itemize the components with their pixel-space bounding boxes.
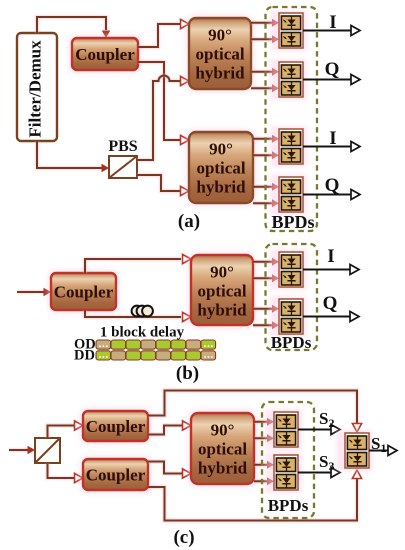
dashed BPDs enclosure (a): [266, 7, 318, 231]
wire: coupler C2 top output to hybrid U3 input1: [85, 254, 191, 273]
filter/demux box: [17, 33, 57, 141]
svg-text:BPDs: BPDs: [271, 212, 314, 232]
PBS polarizing beam splitter: [109, 156, 137, 178]
wire: hybrid U4 output 4 to BPD: [254, 477, 274, 485]
dashed BPDs enclosure (c): [262, 402, 314, 518]
coupler C1: [68, 34, 142, 74]
svg-text:I: I: [329, 128, 336, 149]
balanced photodetector pair BPD1: [270, 10, 307, 51]
svg-text:S3: S3: [319, 452, 334, 473]
wire: coupler C1 out2 to hybrid U2 input1: [138, 62, 189, 145]
OD data block sequence bar: [96, 340, 216, 349]
balanced photodetector pair BPD5: [270, 249, 307, 290]
wire: filter/demux bottom output to PBS input: [37, 141, 109, 172]
svg-text:hybrid: hybrid: [197, 301, 247, 320]
svg-text:90°: 90°: [211, 421, 235, 440]
balanced photodetector pair BPD6: [270, 296, 307, 337]
svg-text:(a): (a): [178, 211, 200, 232]
output S1 with arrow: [369, 434, 397, 456]
svg-text:90°: 90°: [209, 140, 233, 159]
wire: coupler C4 out2 long bottom path to combiner BPD: [148, 470, 362, 521]
svg-text:Coupler: Coupler: [86, 466, 146, 485]
svg-text:Filter/Demux: Filter/Demux: [26, 40, 45, 138]
coupler C2: [47, 269, 120, 314]
output Q of hybrid U1 with arrow: [303, 59, 360, 85]
combiner balanced photodetector pair BPD9: [336, 430, 373, 471]
svg-text:Q: Q: [325, 175, 340, 196]
svg-text:Q: Q: [325, 59, 340, 80]
wire: coupler C3 out1 long top path to combiner BPD: [148, 391, 362, 433]
output S3 with arrow: [298, 452, 340, 478]
svg-text:I: I: [327, 246, 334, 267]
beam splitter (c): [35, 438, 60, 463]
svg-text:Coupler: Coupler: [54, 283, 114, 302]
input wire (c): [9, 446, 35, 454]
svg-text:90°: 90°: [210, 263, 234, 282]
90 deg optical hybrid U1: [185, 14, 255, 93]
wire: filter/demux top output to coupler C1 input: [37, 17, 110, 38]
wire: PBS out2 to hybrid U2 input2: [137, 175, 189, 196]
wire: hybrid U3 output 2 to BPD: [253, 274, 279, 282]
coupler C4: [79, 455, 152, 494]
output I of hybrid U3 with arrow: [303, 246, 359, 275]
dashed BPDs enclosure (b): [266, 244, 318, 350]
svg-text:optical: optical: [196, 159, 245, 178]
input wire (b): [17, 288, 51, 296]
wire: hybrid U3 output 3 to BPD: [253, 305, 279, 313]
svg-text:S1: S1: [371, 434, 386, 455]
wire: coupler C2 bottom output through delay coil to hybrid U3 input2: [85, 310, 191, 322]
wire: hybrid U1 output 4 to BPD: [251, 84, 279, 92]
90 deg optical hybrid U2: [185, 128, 257, 207]
svg-text:hybrid: hybrid: [196, 178, 246, 197]
wire: hybrid U2 output 4 to BPD: [253, 199, 279, 207]
balanced photodetector pair BPD2: [270, 59, 307, 100]
wire: hybrid U2 output 3 to BPD: [253, 183, 279, 191]
output Q of hybrid U2 with arrow: [303, 175, 360, 200]
svg-text:Coupler: Coupler: [86, 417, 146, 436]
wire: coupler C3 out2 to hybrid U4 input1: [148, 421, 191, 435]
svg-text:Coupler: Coupler: [75, 45, 135, 64]
svg-text:BPDs: BPDs: [268, 496, 309, 515]
coupler C3: [79, 407, 152, 445]
output S2 with arrow: [298, 409, 340, 435]
output Q of hybrid U3 with arrow: [303, 293, 359, 322]
wire: hybrid U2 output 2 to BPD: [253, 151, 279, 159]
svg-text:optical: optical: [197, 282, 246, 301]
svg-text:Q: Q: [323, 293, 338, 314]
svg-text:DD: DD: [74, 348, 95, 364]
svg-text:I: I: [329, 12, 336, 33]
balanced photodetector pair BPD4: [270, 174, 307, 215]
wire: coupler C1 out1 to hybrid U1 input1: [138, 19, 189, 47]
svg-text:hybrid: hybrid: [198, 459, 248, 478]
svg-text:(b): (b): [176, 363, 199, 384]
fiber delay coil: [132, 306, 153, 317]
balanced photodetector pair BPD7: [265, 409, 302, 450]
90 deg optical hybrid U4: [187, 409, 258, 488]
wire: hybrid U1 output 3 to BPD: [251, 68, 279, 76]
wire: hybrid U1 output 2 to BPD: [251, 35, 279, 43]
wire: hybrid U1 output 1 to BPD: [251, 19, 279, 27]
wire: hybrid U3 output 4 to BPD: [253, 321, 279, 329]
wire: hybrid U3 output 1 to BPD: [253, 258, 279, 266]
wire: hybrid U4 output 3 to BPD: [254, 461, 274, 469]
wire: coupler C4 out1 to hybrid U4 input2: [148, 462, 191, 479]
svg-text:90°: 90°: [208, 26, 232, 45]
wire: splitter bottom to coupler C4 input: [48, 463, 84, 483]
svg-text:optical: optical: [195, 45, 244, 64]
wire: hybrid U2 output 1 to BPD: [253, 135, 279, 143]
90 deg optical hybrid U3: [187, 251, 257, 329]
wire: hybrid U4 output 2 to BPD: [254, 434, 274, 442]
svg-text:BPDs: BPDs: [271, 333, 312, 352]
svg-text:PBS: PBS: [108, 138, 137, 155]
balanced photodetector pair BPD3: [270, 126, 307, 167]
wire: PBS out1 to hybrid U1 input2 (hop over crossing): [137, 76, 189, 161]
svg-text:optical: optical: [198, 440, 247, 459]
DD delayed data block sequence bar: [96, 351, 216, 360]
svg-text:1 block delay: 1 block delay: [100, 325, 185, 341]
svg-text:(c): (c): [173, 527, 194, 548]
svg-text:S2: S2: [319, 409, 334, 430]
output I of hybrid U1 with arrow: [303, 12, 360, 36]
wire: splitter top to coupler C3 input: [48, 421, 84, 438]
balanced photodetector pair BPD8: [265, 452, 302, 493]
output I of hybrid U2 with arrow: [303, 128, 360, 152]
wire: hybrid U4 output 1 to BPD: [254, 418, 274, 426]
svg-text:hybrid: hybrid: [195, 64, 245, 83]
